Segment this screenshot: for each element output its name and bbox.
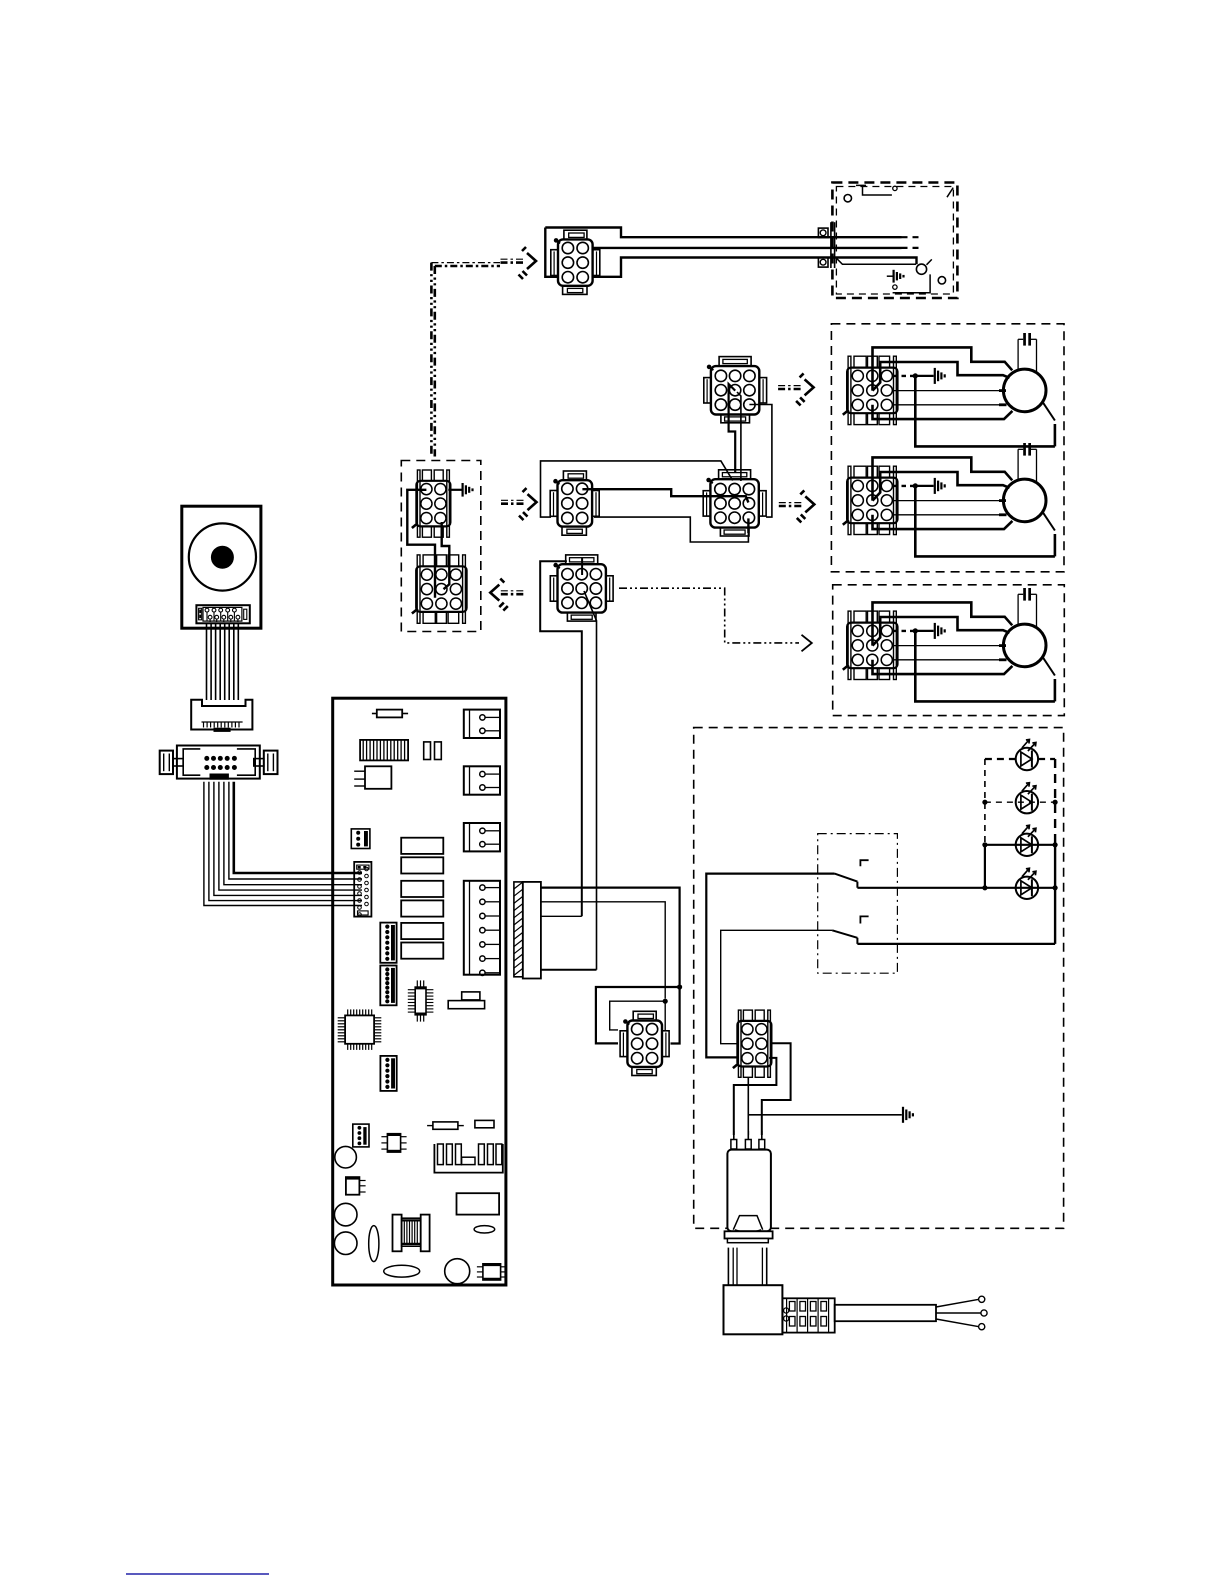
bulkhead left arm	[173, 759, 183, 766]
connector J1 (6-pin to heater)	[558, 239, 593, 285]
wire J4 to J3 mid	[737, 392, 741, 481]
bulkhead right wing lines	[267, 754, 269, 772]
power cord wire 3	[936, 1319, 979, 1327]
ribbon cable panel-to-connector	[206, 623, 208, 701]
connector J-3pin with dots	[351, 829, 370, 849]
wire pump3 pin-top-mid to motor upper	[873, 602, 1013, 645]
wire pump1 mid tick	[999, 389, 1006, 392]
arrow route to pump3 box	[802, 635, 812, 652]
footer rule (blue)	[126, 1573, 269, 1575]
connector P2 (9-pin comb, pump 2 receptacle)	[847, 478, 897, 524]
junction box (dashed)	[401, 461, 481, 632]
bulkhead bottom tab (filled)	[210, 774, 229, 780]
lamp body	[727, 1150, 771, 1232]
connector J5 (9-pin)	[558, 564, 606, 612]
component jumper block	[462, 992, 480, 1000]
transformer T1	[393, 1215, 402, 1252]
node LED rail right	[1053, 885, 1058, 890]
bulkhead right wing	[264, 751, 278, 775]
bulkhead inner bracket right	[237, 749, 255, 775]
transistor Q1	[346, 1177, 360, 1195]
arrow J4 to pump1 box	[778, 385, 803, 387]
switch blade motor3	[1042, 656, 1055, 676]
heater mounting circle BR	[938, 277, 945, 284]
wire harness bulkhead to PCB (7 wires)	[204, 782, 362, 906]
heater small circle top	[893, 186, 897, 190]
wire pump2 pin-top-mid to motor upper	[873, 457, 1013, 500]
control panel box	[182, 506, 261, 628]
pump 3 box (dashed)	[833, 585, 1065, 716]
ground light	[902, 1107, 904, 1123]
terminal block TB4 (7-pin)	[464, 881, 500, 975]
wire pump2 bot-right pin to motor	[893, 514, 1000, 516]
wire J4 to J3 right	[749, 405, 772, 518]
IC U2 (vertical DIP)	[415, 987, 426, 1015]
wire pump3 mid tick	[999, 644, 1006, 647]
wire pump2 pin-center to motor	[873, 472, 1010, 501]
wire J6 to J7 right	[442, 522, 450, 589]
wire SW1 input	[706, 874, 834, 1058]
wire pump3 bot tick	[999, 658, 1007, 661]
pumps 1-2 box (dashed)	[831, 324, 1064, 572]
terminal block TB3	[464, 823, 500, 851]
node LED rail left	[982, 842, 987, 847]
switch SW2 blade	[832, 930, 857, 944]
LED D3	[1016, 834, 1038, 856]
switch SW2 bracket	[860, 916, 868, 923]
lamp socket tube	[727, 1248, 729, 1286]
node junction pump2	[913, 483, 918, 488]
wire cap2 left lead down	[1017, 449, 1019, 479]
ground pump1 lead	[915, 375, 933, 377]
relay K5	[401, 900, 443, 916]
wire junction A right branch to L1	[671, 989, 680, 1044]
heater ground lead	[887, 275, 893, 277]
wire pump3 pin-bot-mid to motor lower	[873, 660, 1013, 674]
switch blade motor1	[1042, 401, 1055, 421]
heater bulkhead square 2	[818, 258, 828, 268]
switch SW1 blade	[835, 874, 858, 888]
heater bulkhead square 1	[818, 228, 828, 238]
arrow J3 to pump2 box	[779, 502, 804, 504]
wire cap3 right lead down	[1036, 594, 1038, 628]
wire pump2 bot tick	[999, 513, 1007, 516]
IC U4 (small bottom)	[483, 1264, 501, 1280]
motor M2	[1003, 479, 1046, 522]
wire pump1 pin-top-mid to motor upper	[873, 347, 1013, 390]
wire pump2 mid-right pin to motor	[893, 500, 1000, 502]
wire SW1 output to LED row4	[857, 887, 1055, 889]
IC U3 (small)	[387, 1134, 400, 1152]
connector edge hatched	[514, 882, 523, 977]
wire TB4 pin2 to junction B	[541, 902, 665, 999]
wire pump1 return	[915, 376, 1055, 447]
electrolytic cap CE1	[335, 1146, 357, 1168]
heater top bracket	[856, 185, 892, 195]
connector L2 (6-pin comb, light)	[737, 1021, 771, 1067]
capacitor C2	[1023, 443, 1026, 456]
wire cap1 right lead down	[1036, 339, 1038, 373]
connector J3 (9-pin)	[710, 479, 758, 527]
connector J2 (6-pin)	[558, 480, 593, 526]
ground J6 lead	[448, 489, 461, 491]
wire pump1 centrifugal switch to return	[1054, 424, 1057, 446]
wire heater stub top (dashed)	[902, 236, 921, 238]
electrolytic cap CE3	[334, 1232, 357, 1255]
wire pump1 pin-bot-mid to motor lower	[873, 405, 1013, 419]
bulkhead connector body	[177, 746, 260, 779]
wire cap3 left lead down	[1017, 594, 1019, 624]
relay K7	[401, 943, 443, 959]
wire J5 center diag to PCB	[584, 591, 597, 970]
connector J4 (9-pin to pump1)	[711, 366, 759, 414]
switch box (dash-dot)	[818, 834, 898, 974]
node LED rail right	[1053, 800, 1058, 805]
ground pump3	[934, 623, 936, 639]
component striped block (relay K1)	[360, 740, 408, 761]
capacitor C3	[1023, 588, 1026, 601]
terminal block TB1	[464, 710, 500, 738]
node LED rail left	[982, 800, 987, 805]
bulkhead right arm	[254, 759, 264, 766]
wire LED rail left solid	[984, 845, 986, 888]
relay K3	[401, 857, 443, 873]
wire pump2 pin to junction (dashed)	[893, 485, 915, 487]
wire pump1 pin to junction (dashed)	[893, 375, 915, 377]
bulkhead inner bracket left	[183, 749, 200, 775]
component small rect	[475, 1120, 494, 1127]
bulkhead left wing lines	[163, 754, 165, 772]
switch SW1 bracket	[860, 860, 868, 866]
relay K4	[401, 881, 443, 897]
heater mounting circle TL	[844, 195, 851, 202]
connector J-ribbon (7-pin) on PCB	[354, 862, 371, 917]
IC U1 (square, pins 4 sides)	[345, 1015, 374, 1043]
wire pump3 pin to junction (dashed)	[893, 630, 915, 632]
heater bulkhead circle 1	[820, 230, 826, 236]
wire TB4 pin3 to J5	[541, 915, 582, 917]
header H3 (6-dot)	[380, 1056, 396, 1091]
wire J2 to J3 bottom loop	[594, 517, 748, 542]
resistor R2	[433, 1122, 458, 1129]
wire pump3 bot-right pin to motor	[893, 659, 1000, 661]
wire pump1 bot tick	[999, 403, 1007, 406]
LED D1	[1016, 748, 1038, 770]
wire heater stub mid (dashed)	[902, 247, 921, 249]
speaker/knob center (filled)	[211, 546, 234, 569]
arrow harness to heater connector	[501, 258, 526, 260]
wire LED row3	[985, 844, 1055, 846]
lamp flange	[725, 1231, 773, 1238]
connector J-4pin with dots	[353, 1124, 369, 1147]
heater element bracket	[837, 258, 917, 264]
connector edge body	[523, 882, 541, 979]
wire cap2 right lead down	[1036, 449, 1038, 483]
capacitor C-small 1	[424, 742, 431, 760]
wire J5 top tab stub	[581, 558, 583, 575]
wire LED rail left dashed	[984, 759, 986, 845]
relay K6	[401, 923, 443, 939]
wire pump2 pin-bot-mid to motor lower	[873, 515, 1013, 529]
wire L2 ground/lamp pin2	[748, 1077, 902, 1135]
heatsink HS1	[434, 1144, 502, 1173]
wire cap1 left lead down	[1017, 339, 1019, 369]
ribbon connector tab (filled)	[214, 728, 231, 732]
node junction pump3	[913, 628, 918, 633]
heater box (dashed)	[832, 183, 957, 299]
node junction B	[663, 999, 668, 1004]
power plug circles	[784, 1308, 789, 1313]
relay K8 (large)	[457, 1193, 500, 1214]
heater terminal circle	[916, 264, 926, 274]
heater terminal corner	[893, 259, 932, 292]
heater ground circle	[893, 285, 897, 289]
motor M1	[1003, 369, 1046, 412]
wire TB4 pin7 to J5	[541, 969, 597, 971]
heater bulkhead circle 2	[820, 259, 826, 265]
wire LED row1 (dashed)	[985, 758, 1016, 760]
wire J5 dash-dot route	[619, 588, 799, 643]
power cord wire 2 end	[981, 1310, 987, 1316]
power cord wire 3 end	[979, 1324, 985, 1330]
panel strip right key	[244, 609, 247, 619]
panel strip key squares	[199, 610, 201, 614]
ground pump2	[934, 478, 936, 494]
arrow to J5 (pointing left)	[501, 590, 524, 592]
node LED rail left	[982, 885, 987, 890]
ground pump2 lead	[915, 485, 933, 487]
bulkhead left wing	[160, 751, 173, 775]
lamp terminals	[733, 1131, 735, 1140]
power cord	[835, 1305, 936, 1321]
panel strip left key	[199, 608, 202, 620]
wire pump3 return	[915, 631, 1055, 702]
power cord wire 1	[936, 1299, 979, 1307]
connector J7 (9-pin comb)	[416, 566, 466, 612]
header H2 (8-dot)	[380, 966, 396, 1006]
power cord wire 1 end	[979, 1296, 985, 1302]
wire J2 to J3 middle	[582, 489, 748, 502]
wire J6 to J7 left	[407, 490, 435, 598]
wire J1 fork bottom	[545, 228, 916, 277]
ground pump3 lead	[915, 630, 933, 632]
wire junction B left loop to L1	[610, 1001, 666, 1030]
power cord wire 2	[936, 1312, 981, 1314]
component ellipse small	[474, 1226, 495, 1233]
connector J6 (6-pin comb)	[416, 481, 450, 527]
wire pump1 mid-right pin to motor	[893, 390, 1000, 392]
ground J6	[462, 483, 464, 497]
wire junction A left loop to L1	[596, 987, 680, 1043]
wire pump1 bot-right pin to motor	[893, 404, 1000, 406]
bulkhead pins (2x5)	[204, 756, 209, 761]
wire harness panel cable vertical (dash-dot pair)	[430, 263, 433, 457]
lamp lens (trapezoid)	[733, 1216, 762, 1230]
capacitor C-small 2	[435, 742, 442, 760]
power cord terminal block	[782, 1298, 834, 1332]
panel connector strip	[196, 605, 249, 623]
wire L2 to lamp pin3	[762, 1043, 791, 1135]
wire L2 to lamp pin1	[734, 1058, 777, 1135]
panel strip pins	[205, 608, 209, 612]
wire pump2 mid tick	[999, 499, 1006, 502]
wire TB4 pin1 to junction A	[541, 888, 680, 985]
terminal block TB2	[464, 766, 500, 794]
wire J2 to J3 top loop	[541, 461, 733, 517]
relay K2	[401, 838, 443, 854]
header H1 (8-dot)	[380, 923, 396, 963]
node junction pump1	[913, 373, 918, 378]
PCB outline	[333, 698, 506, 1285]
node junction A	[677, 984, 682, 989]
wire pump3 mid-right pin to motor	[893, 645, 1000, 647]
heater bulkhead plate lines	[830, 222, 832, 268]
ground pump1	[934, 368, 936, 384]
component ellipse bottom	[384, 1265, 420, 1277]
heater ground	[892, 270, 894, 283]
wire J3 bottom-right pin	[747, 518, 749, 533]
capacitor C1	[1023, 333, 1026, 346]
wire harness panel cable horizontal (dash-dot pair)	[431, 262, 500, 264]
wire pump2 return	[915, 486, 1055, 557]
ribbon connector contacts	[203, 722, 205, 728]
heater inner outline (dashed)	[836, 187, 953, 295]
heater corner diagonal TR	[947, 188, 953, 198]
wire LED rail right solid	[1054, 845, 1056, 944]
wire pump3 pin-center to motor	[873, 617, 1010, 646]
wire pump2 centrifugal switch to return	[1054, 534, 1057, 556]
panel strip inner frame	[203, 607, 242, 621]
light box (dashed)	[694, 728, 1064, 1229]
ribbon connector body	[191, 700, 252, 730]
connector P1 (9-pin comb, pump 1 receptacle)	[847, 368, 897, 414]
arrow junction-box to J2	[501, 499, 526, 501]
motor M3	[1003, 624, 1046, 667]
wire SW2 output (LED return)	[857, 943, 1055, 945]
wire J5 top to PCB	[540, 561, 582, 916]
wire SW2 input	[721, 930, 833, 1043]
wire pump3 centrifugal switch to return	[1054, 679, 1057, 701]
wire pump1 pin-center to motor	[873, 362, 1010, 391]
electrolytic cap CE5	[445, 1259, 470, 1284]
wire junction B right branch to L1	[664, 1003, 666, 1031]
capacitor CE4 (ellipse)	[369, 1226, 379, 1262]
wire J4 to J3 left	[729, 384, 736, 473]
connector P3 (9-pin comb, pump 3 receptacle)	[847, 623, 897, 669]
wire LED row2 (dashed)	[985, 801, 1055, 803]
LED D4	[1016, 877, 1038, 899]
LED D2	[1016, 791, 1038, 813]
wire J1 middle	[593, 247, 902, 249]
switch blade motor2	[1042, 511, 1055, 531]
power plug body	[724, 1285, 783, 1334]
node LED rail right	[1053, 842, 1058, 847]
wire LED rail right dashed	[1054, 759, 1056, 845]
speaker/knob outer circle	[189, 523, 256, 590]
wire J1 fork top	[545, 228, 901, 238]
component U-reg with leads	[365, 766, 391, 789]
connector L1 (6-pin to light)	[627, 1021, 662, 1067]
electrolytic cap CE2	[334, 1203, 357, 1226]
resistor R1 (top)	[377, 710, 402, 718]
